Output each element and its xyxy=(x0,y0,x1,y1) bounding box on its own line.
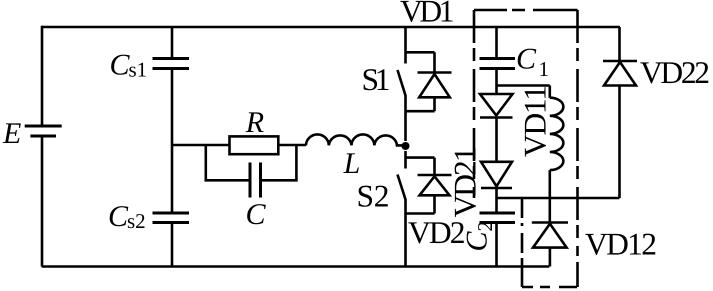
svg-text:VD22: VD22 xyxy=(640,55,710,90)
svg-text:VD21: VD21 xyxy=(448,147,483,218)
svg-text:C2: C2 xyxy=(461,221,498,252)
svg-text:S2: S2 xyxy=(357,179,390,214)
svg-text:C: C xyxy=(108,200,129,233)
svg-text:VD2: VD2 xyxy=(408,215,466,250)
svg-text:VD11: VD11 xyxy=(518,85,553,157)
svg-text:C: C xyxy=(516,43,537,76)
svg-text:s2: s2 xyxy=(127,209,146,233)
svg-text:s1: s1 xyxy=(129,58,148,82)
svg-text:VD1: VD1 xyxy=(400,0,455,29)
svg-text:VD12: VD12 xyxy=(585,226,657,261)
svg-text:C: C xyxy=(110,48,131,81)
svg-text:S1: S1 xyxy=(362,62,391,97)
svg-text:1: 1 xyxy=(539,57,550,81)
